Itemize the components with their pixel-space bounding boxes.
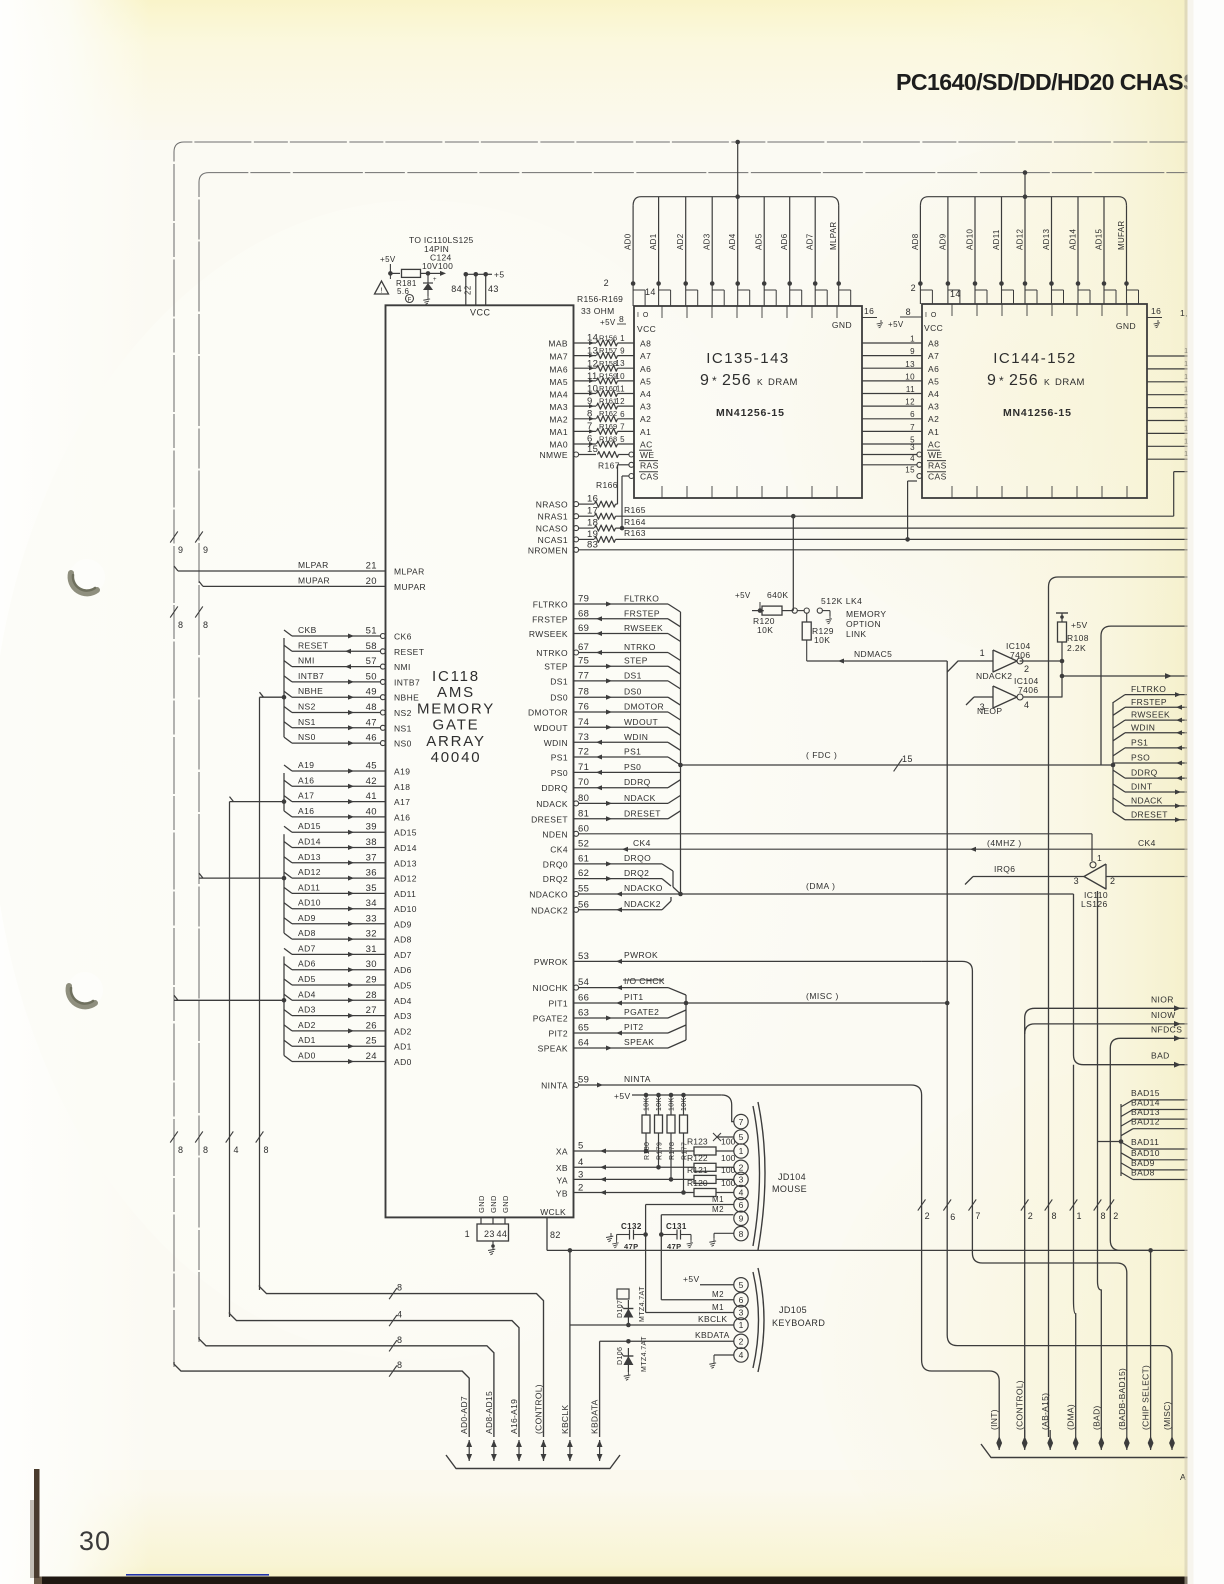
svg-text:WCLK: WCLK	[540, 1207, 566, 1217]
svg-text:1: 1	[739, 1146, 744, 1156]
svg-text:R157: R157	[599, 346, 617, 355]
svg-text:69: 69	[578, 623, 589, 634]
svg-text:AC: AC	[640, 440, 653, 450]
svg-text:+5V: +5V	[888, 320, 904, 329]
svg-text:LINK: LINK	[846, 629, 867, 639]
svg-text:3: 3	[739, 1308, 744, 1318]
svg-text:M1: M1	[712, 1303, 724, 1312]
svg-text:AD11: AD11	[992, 229, 1001, 250]
svg-text:JD104: JD104	[778, 1172, 806, 1182]
svg-text:AD5: AD5	[394, 981, 412, 991]
svg-text:AD6: AD6	[298, 959, 316, 969]
svg-text:NDACK: NDACK	[624, 793, 656, 803]
svg-text:WDIN: WDIN	[624, 732, 648, 742]
svg-text:10V100: 10V100	[422, 261, 453, 271]
svg-text:WDIN: WDIN	[1131, 722, 1155, 732]
svg-text:FLTRKO: FLTRKO	[624, 594, 659, 604]
svg-text:MUFAR: MUFAR	[1117, 221, 1126, 251]
svg-text:AD7: AD7	[298, 943, 316, 953]
svg-text:DRQ2: DRQ2	[624, 868, 649, 878]
svg-text:NS2: NS2	[394, 708, 412, 718]
svg-text:A18: A18	[394, 782, 410, 792]
svg-text:R166: R166	[596, 480, 618, 490]
svg-text:25: 25	[366, 1036, 377, 1047]
svg-text:A6: A6	[640, 364, 651, 374]
svg-text:+5V: +5V	[1071, 620, 1088, 630]
svg-text:NMI: NMI	[394, 662, 411, 672]
svg-text:PIT2: PIT2	[624, 1022, 644, 1032]
svg-text:DRESET: DRESET	[1131, 809, 1168, 819]
svg-text:A4: A4	[640, 389, 651, 399]
svg-text:(AB-A15): (AB-A15)	[1040, 1393, 1050, 1430]
svg-text:60: 60	[578, 823, 589, 834]
svg-text:AD6: AD6	[394, 965, 412, 975]
svg-text:CK4: CK4	[1138, 838, 1156, 848]
svg-text:R122: R122	[687, 1153, 708, 1163]
svg-text:79: 79	[578, 594, 589, 605]
svg-text:33: 33	[366, 913, 377, 924]
svg-text:2: 2	[1024, 664, 1029, 674]
svg-text:NINTA: NINTA	[624, 1074, 651, 1084]
svg-text:(BADB-BAD15): (BADB-BAD15)	[1117, 1368, 1127, 1430]
svg-text:A19: A19	[394, 767, 410, 777]
svg-text:5: 5	[739, 1280, 744, 1290]
svg-text:AD2: AD2	[394, 1026, 412, 1036]
svg-text:70: 70	[578, 777, 589, 788]
svg-text:A17: A17	[394, 797, 410, 807]
svg-text:MUPAR: MUPAR	[394, 582, 426, 592]
svg-text:A7: A7	[928, 351, 939, 361]
svg-text:CK4: CK4	[550, 845, 568, 855]
svg-text:BAD11: BAD11	[1131, 1137, 1159, 1147]
svg-text:8: 8	[1101, 1211, 1106, 1221]
svg-text:47P: 47P	[624, 1242, 639, 1251]
svg-text:21: 21	[366, 561, 377, 572]
svg-text:9: 9	[700, 372, 710, 389]
svg-text:RAS: RAS	[640, 461, 659, 471]
svg-text:42: 42	[366, 776, 377, 787]
svg-text:STEP: STEP	[544, 662, 568, 672]
svg-text:13: 13	[615, 359, 625, 368]
svg-text:MA1: MA1	[549, 427, 568, 437]
svg-text:MN41256-15: MN41256-15	[1003, 407, 1072, 419]
svg-text:DDRQ: DDRQ	[1131, 768, 1158, 778]
svg-text:A16-A19: A16-A19	[509, 1399, 519, 1434]
svg-text:7: 7	[975, 1211, 980, 1221]
svg-text:DDRQ: DDRQ	[624, 777, 651, 787]
svg-text:NS0: NS0	[394, 739, 412, 749]
svg-text:30: 30	[79, 1526, 111, 1556]
svg-text:AD7: AD7	[394, 950, 412, 960]
svg-text:RESET: RESET	[394, 647, 424, 657]
svg-text:22: 22	[464, 285, 473, 295]
svg-text:65: 65	[578, 1023, 589, 1034]
svg-text:51: 51	[366, 626, 377, 637]
svg-text:YB: YB	[556, 1189, 568, 1199]
svg-text:9: 9	[620, 347, 625, 356]
svg-text:NBHE: NBHE	[394, 693, 419, 703]
svg-text:MN41256-15: MN41256-15	[716, 407, 785, 419]
svg-text:A16: A16	[298, 775, 314, 785]
svg-text:(CHIP SELECT): (CHIP SELECT)	[1141, 1365, 1151, 1430]
svg-text:7: 7	[739, 1117, 744, 1127]
svg-text:JD105: JD105	[779, 1305, 807, 1315]
svg-text:67: 67	[578, 642, 589, 653]
svg-text:WE: WE	[640, 450, 655, 460]
svg-text:MA6: MA6	[549, 365, 568, 375]
svg-text:BAD14: BAD14	[1131, 1098, 1160, 1108]
svg-text:24: 24	[366, 1051, 377, 1062]
svg-text:CAS: CAS	[640, 472, 659, 482]
svg-text:MUPAR: MUPAR	[298, 575, 330, 585]
svg-text:PGATE2: PGATE2	[533, 1014, 568, 1024]
svg-text:CK4: CK4	[633, 838, 651, 848]
svg-text:68: 68	[578, 608, 589, 619]
svg-text:A8: A8	[640, 339, 651, 349]
svg-text:INTB7: INTB7	[298, 671, 324, 681]
svg-text:A5: A5	[928, 376, 939, 386]
svg-text:62: 62	[578, 868, 589, 879]
svg-text:6: 6	[910, 410, 915, 419]
svg-text:AD0-AD7: AD0-AD7	[459, 1396, 469, 1434]
svg-text:MLPAR: MLPAR	[394, 567, 425, 577]
svg-text:30: 30	[366, 959, 377, 970]
svg-text:DS0: DS0	[624, 687, 642, 697]
svg-text:AMS: AMS	[437, 684, 475, 701]
svg-text:OPTION: OPTION	[846, 619, 881, 629]
svg-text:256: 256	[1009, 372, 1039, 389]
svg-text:AD1: AD1	[649, 233, 658, 250]
svg-text:R108: R108	[1067, 633, 1089, 643]
svg-text:GND: GND	[832, 320, 852, 330]
svg-text:6: 6	[739, 1200, 744, 1210]
svg-text:DS1: DS1	[624, 670, 642, 680]
svg-text:63: 63	[578, 1008, 589, 1019]
svg-text:VCC: VCC	[924, 323, 943, 333]
svg-text:59: 59	[578, 1075, 589, 1086]
svg-text:(DMA ): (DMA )	[806, 881, 835, 891]
svg-text:37: 37	[366, 852, 377, 863]
svg-text:1: 1	[1097, 853, 1102, 863]
svg-text:512K LK4: 512K LK4	[821, 596, 862, 606]
svg-text:NDACK2: NDACK2	[624, 899, 661, 909]
svg-text:KBDATA: KBDATA	[695, 1330, 730, 1340]
svg-text:73: 73	[578, 732, 589, 743]
svg-text:7406: 7406	[1018, 685, 1039, 695]
svg-text:INTB7: INTB7	[394, 677, 420, 687]
svg-text:40040: 40040	[431, 749, 482, 766]
svg-text:34: 34	[366, 898, 377, 909]
svg-text:71: 71	[578, 762, 589, 773]
svg-text:MOUSE: MOUSE	[772, 1184, 807, 1194]
svg-text:2: 2	[1113, 1211, 1118, 1221]
svg-text:AD1: AD1	[298, 1035, 316, 1045]
svg-text:47: 47	[366, 717, 377, 728]
svg-text:4: 4	[910, 454, 915, 463]
svg-text:38: 38	[366, 837, 377, 848]
svg-text:RESET: RESET	[298, 640, 328, 650]
svg-text:PSO: PSO	[1131, 753, 1150, 763]
svg-text:8: 8	[906, 307, 911, 317]
svg-text:(MISC): (MISC)	[1162, 1401, 1172, 1430]
svg-text:1: 1	[739, 1320, 744, 1330]
svg-text:MAB: MAB	[548, 339, 568, 349]
svg-text:8: 8	[397, 1335, 402, 1345]
svg-text:MA7: MA7	[549, 352, 568, 362]
svg-text:A5: A5	[640, 376, 651, 386]
svg-text:PGATE2: PGATE2	[624, 1007, 659, 1017]
svg-text:4: 4	[578, 1157, 584, 1168]
svg-text:A16: A16	[298, 806, 314, 816]
svg-text:A1: A1	[640, 427, 651, 437]
svg-text:PS0: PS0	[624, 762, 641, 772]
svg-text:DRQO: DRQO	[624, 853, 651, 863]
svg-text:IRQ6: IRQ6	[994, 864, 1015, 874]
svg-text:MTZ4.7AT: MTZ4.7AT	[641, 1336, 648, 1372]
svg-text:2.2K: 2.2K	[1067, 643, 1086, 653]
svg-text:BAD8: BAD8	[1131, 1168, 1155, 1178]
svg-text:K: K	[757, 377, 763, 387]
svg-text:I/O CHCK: I/O CHCK	[624, 976, 665, 986]
svg-text:27: 27	[366, 1005, 377, 1016]
svg-text:15: 15	[905, 466, 915, 475]
svg-text:+: +	[433, 277, 437, 283]
svg-text:I O: I O	[925, 312, 937, 319]
svg-text:(INT): (INT)	[989, 1409, 999, 1430]
svg-text:MLPAR: MLPAR	[298, 560, 329, 570]
svg-text:4: 4	[234, 1145, 239, 1155]
svg-text:52: 52	[578, 839, 589, 850]
svg-text:M2: M2	[712, 1290, 724, 1299]
svg-text:AD15: AD15	[394, 828, 417, 838]
svg-text:WDOUT: WDOUT	[534, 723, 568, 733]
svg-text:NIOR: NIOR	[1151, 994, 1174, 1004]
svg-text:( FDC ): ( FDC )	[806, 750, 837, 760]
svg-text:NDACK: NDACK	[536, 799, 568, 809]
svg-text:AD8: AD8	[298, 928, 316, 938]
svg-text:PWROK: PWROK	[534, 957, 568, 967]
svg-text:A7: A7	[640, 351, 651, 361]
svg-text:AD3: AD3	[703, 233, 712, 250]
svg-text:NDEN: NDEN	[542, 829, 568, 839]
svg-text:+5V: +5V	[614, 1091, 631, 1101]
svg-text:AD10: AD10	[298, 898, 321, 908]
svg-text:MEMORY: MEMORY	[846, 609, 887, 619]
svg-text:R162: R162	[599, 409, 617, 418]
svg-text:PS1: PS1	[1131, 737, 1148, 747]
svg-text:AD0: AD0	[624, 233, 633, 250]
svg-text:NBHE: NBHE	[298, 686, 323, 696]
svg-text:56: 56	[578, 899, 589, 910]
svg-text:A1: A1	[928, 427, 939, 437]
svg-text:A4: A4	[928, 389, 939, 399]
svg-text:2: 2	[911, 283, 916, 293]
svg-text:8: 8	[739, 1229, 744, 1239]
svg-text:81: 81	[578, 808, 589, 819]
svg-text:RWSEEK: RWSEEK	[624, 623, 663, 633]
svg-text:K: K	[1044, 377, 1050, 387]
svg-text:10: 10	[905, 372, 915, 381]
svg-text:WDIN: WDIN	[544, 738, 568, 748]
svg-text:!: !	[380, 286, 382, 295]
svg-text:47P: 47P	[667, 1242, 682, 1251]
svg-text:100: 100	[721, 1137, 736, 1147]
svg-text:XB: XB	[556, 1163, 568, 1173]
svg-text:AD15: AD15	[298, 821, 321, 831]
svg-text:WE: WE	[928, 450, 943, 460]
svg-text:VCC: VCC	[637, 324, 656, 334]
svg-text:GND: GND	[501, 1195, 510, 1213]
svg-text:AD8: AD8	[911, 233, 920, 250]
svg-text:84: 84	[451, 284, 462, 294]
svg-text:C132: C132	[621, 1222, 642, 1231]
svg-text:35: 35	[366, 883, 377, 894]
svg-text:A2: A2	[640, 414, 651, 424]
svg-text:PS1: PS1	[624, 747, 641, 757]
svg-text:DRESET: DRESET	[624, 808, 661, 818]
svg-text:R168: R168	[599, 435, 617, 444]
svg-text:26: 26	[366, 1020, 377, 1031]
svg-text:NDACK2: NDACK2	[531, 905, 568, 915]
svg-text:AD12: AD12	[394, 874, 417, 884]
svg-text:82: 82	[550, 1230, 561, 1240]
svg-text:NMWE: NMWE	[539, 450, 568, 460]
svg-text:10K: 10K	[814, 635, 830, 645]
svg-text:74: 74	[578, 717, 589, 728]
svg-text:KBCLK: KBCLK	[698, 1314, 727, 1324]
svg-text:80: 80	[578, 793, 589, 804]
svg-text:IC118: IC118	[432, 668, 480, 685]
svg-text:A6: A6	[928, 364, 939, 374]
svg-text:10K: 10K	[669, 1097, 676, 1111]
svg-text:7: 7	[910, 423, 915, 432]
svg-text:M2: M2	[712, 1205, 724, 1214]
svg-text:BAD9: BAD9	[1131, 1158, 1155, 1168]
svg-text:32: 32	[366, 929, 377, 940]
svg-text:NDACK: NDACK	[1131, 795, 1163, 805]
svg-text:AD5: AD5	[298, 974, 316, 984]
svg-text:GATE: GATE	[433, 717, 480, 734]
svg-text:DINT: DINT	[1131, 782, 1152, 792]
svg-text:10K: 10K	[644, 1097, 651, 1111]
svg-text:(4MHZ ): (4MHZ )	[987, 838, 1022, 848]
svg-text:AD0: AD0	[298, 1051, 316, 1061]
svg-text:AD0: AD0	[394, 1057, 412, 1067]
svg-text:FRSTEP: FRSTEP	[1131, 697, 1167, 707]
svg-text:NEOP: NEOP	[977, 706, 1002, 716]
svg-text:76: 76	[578, 702, 589, 713]
svg-text:MA0: MA0	[549, 440, 568, 450]
svg-text:9: 9	[910, 347, 915, 356]
svg-text:AD8-AD15: AD8-AD15	[484, 1391, 494, 1434]
svg-text:KEYBOARD: KEYBOARD	[772, 1318, 825, 1328]
svg-text:6: 6	[950, 1212, 955, 1222]
svg-text:(CONTROL): (CONTROL)	[1015, 1380, 1025, 1430]
svg-text:BAD13: BAD13	[1131, 1107, 1160, 1117]
svg-text:MA2: MA2	[549, 415, 568, 425]
svg-text:VCC: VCC	[470, 308, 491, 318]
svg-text:DRESET: DRESET	[531, 814, 568, 824]
svg-text:DRAM: DRAM	[768, 377, 798, 388]
svg-text:12: 12	[905, 398, 915, 407]
svg-text:46: 46	[366, 733, 377, 744]
svg-text:66: 66	[578, 993, 589, 1004]
svg-text:AD14: AD14	[394, 843, 417, 853]
svg-text:NINTA: NINTA	[541, 1081, 568, 1091]
svg-text:44: 44	[497, 1229, 508, 1239]
svg-text:KBDATA: KBDATA	[590, 1399, 600, 1434]
svg-text:KBCLK: KBCLK	[560, 1405, 570, 1434]
svg-text:100: 100	[721, 1165, 736, 1175]
svg-text:MTZ4.7AT: MTZ4.7AT	[639, 1286, 646, 1322]
svg-text:8: 8	[1052, 1211, 1057, 1221]
svg-text:PS1: PS1	[551, 753, 568, 763]
svg-text:DS1: DS1	[550, 676, 568, 686]
svg-text:2: 2	[1110, 876, 1115, 886]
svg-text:FLTRKO: FLTRKO	[533, 600, 568, 610]
svg-text:R160: R160	[599, 384, 617, 393]
svg-text:55: 55	[578, 884, 589, 895]
svg-text:14: 14	[645, 287, 656, 297]
svg-text:NS1: NS1	[394, 723, 412, 733]
svg-text:FRSTEP: FRSTEP	[624, 608, 660, 618]
svg-text:15: 15	[902, 754, 913, 764]
svg-text:NRASO: NRASO	[536, 500, 568, 510]
svg-text:16: 16	[864, 306, 874, 316]
svg-text:4: 4	[739, 1350, 744, 1360]
svg-text:AD13: AD13	[298, 852, 321, 862]
svg-text:AD14: AD14	[1069, 229, 1078, 250]
svg-text:(DMA): (DMA)	[1066, 1404, 1076, 1430]
svg-text:PC1640/SD/DD/HD20 CHASSIS: PC1640/SD/DD/HD20 CHASSIS	[896, 69, 1219, 95]
svg-text:AD9: AD9	[938, 233, 947, 250]
svg-text:FRSTEP: FRSTEP	[532, 614, 568, 624]
svg-text:2: 2	[1028, 1211, 1033, 1221]
svg-text:YA: YA	[556, 1176, 568, 1186]
svg-text:GND: GND	[477, 1195, 486, 1213]
svg-text:48: 48	[366, 702, 377, 713]
svg-text:IC144-152: IC144-152	[993, 350, 1077, 367]
svg-text:2: 2	[739, 1163, 744, 1173]
svg-text:NCAS1: NCAS1	[538, 535, 568, 545]
svg-text:A3: A3	[928, 402, 939, 412]
svg-text:R156-R169: R156-R169	[577, 294, 623, 304]
svg-text:SPEAK: SPEAK	[624, 1037, 654, 1047]
svg-text:45: 45	[366, 761, 377, 772]
svg-text:LS126: LS126	[1081, 899, 1108, 909]
svg-text:DRAM: DRAM	[1055, 377, 1085, 388]
svg-text:A3: A3	[640, 402, 651, 412]
svg-text:AD3: AD3	[298, 1005, 316, 1015]
svg-text:AD9: AD9	[394, 919, 412, 929]
svg-text:+5V: +5V	[600, 318, 616, 327]
svg-text:16: 16	[1151, 306, 1161, 316]
svg-text:8: 8	[178, 1145, 183, 1155]
svg-text:BAD10: BAD10	[1131, 1148, 1160, 1158]
svg-text:R163: R163	[624, 528, 646, 538]
svg-text:AD4: AD4	[298, 989, 316, 999]
svg-text:AD4: AD4	[394, 996, 412, 1006]
svg-text:41: 41	[366, 791, 377, 802]
svg-text:7: 7	[620, 422, 625, 431]
svg-text:ARRAY: ARRAY	[426, 733, 486, 750]
svg-text:MA3: MA3	[549, 402, 568, 412]
svg-text:4: 4	[1024, 700, 1029, 710]
svg-text:39: 39	[366, 822, 377, 833]
svg-text:A2: A2	[928, 414, 939, 424]
svg-text:NDACK2: NDACK2	[976, 671, 1012, 681]
svg-text:NRAS1: NRAS1	[538, 512, 568, 522]
